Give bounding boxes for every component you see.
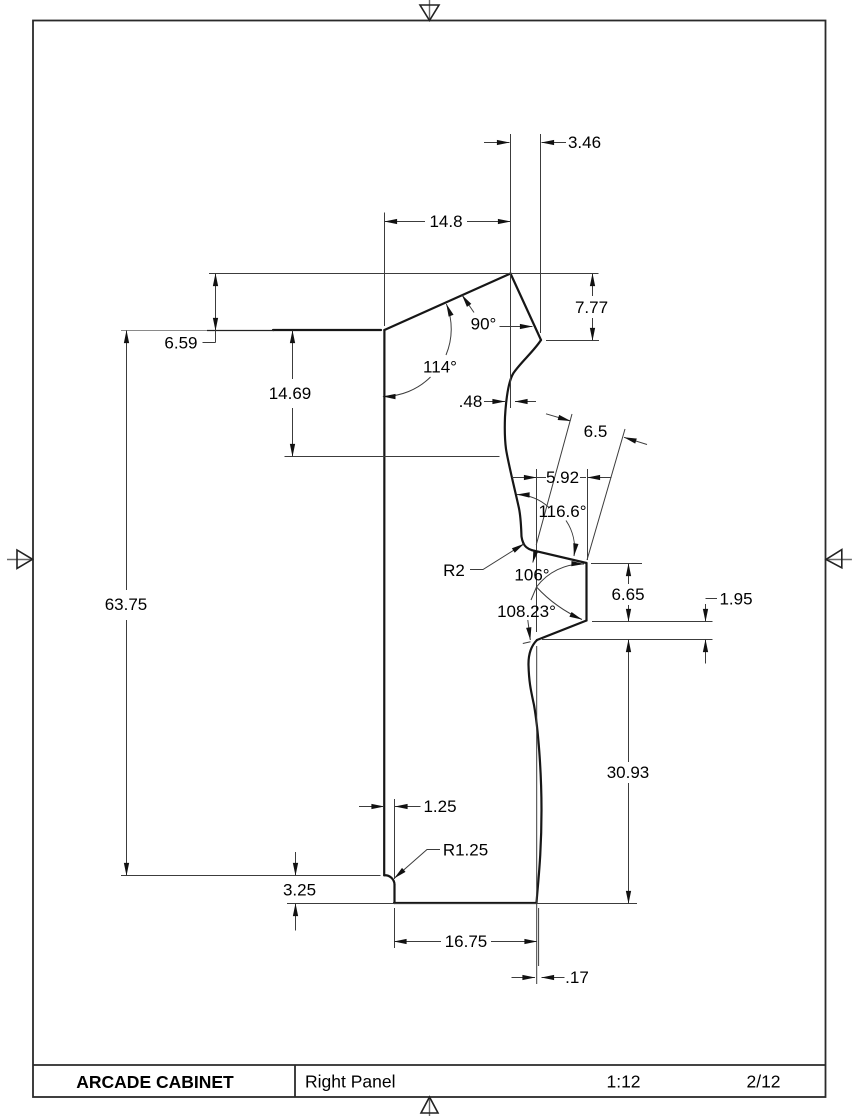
dim 16.75: [394, 932, 537, 951]
dim 90 deg leader: [462, 295, 533, 334]
ext x536.5 long vertical: [536, 469, 538, 632]
svg-text:5.92: 5.92: [546, 468, 579, 487]
underhang slanted edge: [537, 621, 587, 641]
ext x540.3 vertical: [540, 134, 542, 333]
ext y340 right: [546, 340, 599, 342]
svg-text:6.65: 6.65: [611, 585, 644, 604]
ext x394.7 for 1.25: [394, 799, 396, 879]
dim 3.25: [283, 852, 316, 931]
svg-text:2/12: 2/12: [746, 1072, 780, 1092]
front vertical face: [585, 563, 587, 621]
top center alignment mark: [420, 0, 439, 21]
svg-text:3.25: 3.25: [283, 881, 316, 900]
ext y456.5 glass top: [285, 456, 500, 458]
ext top-left y330 medium part: [207, 330, 274, 332]
svg-text:1.25: 1.25: [423, 797, 456, 816]
svg-text:14.8: 14.8: [429, 212, 462, 231]
svg-text:63.75: 63.75: [105, 595, 148, 614]
svg-text:114°: 114°: [423, 358, 457, 377]
dim 6.5: [546, 414, 647, 445]
svg-text:.48: .48: [459, 392, 483, 411]
svg-text:14.69: 14.69: [269, 384, 312, 403]
svg-text:108.23°: 108.23°: [497, 602, 556, 621]
title block: [33, 1065, 826, 1097]
lower front S-curve edge: [528, 640, 541, 903]
R1.25 leader: [394, 841, 488, 879]
dim 1.95: [706, 590, 753, 664]
ext top-left y330 light part: [121, 330, 207, 332]
ext x510.7 vertical from top: [510, 134, 512, 408]
slant ext line 2: [587, 429, 625, 560]
ext y640: [542, 639, 713, 641]
dim .17: [512, 968, 589, 987]
svg-text:ARCADE CABINET: ARCADE CABINET: [76, 1072, 234, 1092]
svg-text:106°: 106°: [514, 566, 549, 585]
dim 3.46: [484, 133, 601, 152]
ext y563: [591, 563, 642, 565]
svg-text:116.6°: 116.6°: [538, 502, 586, 521]
dim 5.92: [512, 468, 612, 487]
dim 116.6 deg arc: [517, 495, 587, 563]
dim 114 deg arc: [383, 304, 457, 397]
back vertical edge: [383, 330, 385, 875]
dark segment of top extension: [273, 329, 381, 331]
dim 14.69: [269, 331, 312, 457]
svg-text:30.93: 30.93: [607, 763, 650, 782]
svg-text:.17: .17: [565, 968, 589, 987]
ext x539.5 for .17: [538, 908, 540, 966]
control panel top edge: [532, 550, 587, 563]
dim 6.59: [164, 274, 215, 353]
ext y875: [121, 875, 381, 877]
svg-text:7.77: 7.77: [575, 298, 608, 317]
ext x587 vertical: [587, 469, 589, 560]
ext x384.4 for 14.8: [384, 213, 386, 327]
ext top horizontal y273.5: [209, 273, 599, 275]
svg-text:1.95: 1.95: [719, 590, 752, 609]
svg-text:6.5: 6.5: [584, 422, 608, 441]
dim 108.23 deg arc: [497, 587, 582, 644]
svg-text:R1.25: R1.25: [443, 841, 488, 860]
svg-text:16.75: 16.75: [445, 932, 488, 951]
ext y622: [592, 621, 713, 623]
dim .48: [459, 392, 536, 411]
rear bottom notch vertical: [393, 885, 395, 904]
R2 leader: [443, 544, 524, 580]
right center alignment mark: [826, 550, 852, 568]
svg-text:R2: R2: [443, 561, 465, 580]
svg-text:Right Panel: Right Panel: [305, 1072, 395, 1092]
monitor glass concave curve: [505, 340, 541, 543]
ext y903: [287, 903, 637, 905]
top slanted edge: [384, 274, 510, 331]
dim 63.75: [105, 331, 148, 876]
dim 1.25: [359, 797, 457, 816]
dim 7.77: [575, 274, 608, 341]
R1.25 fillet: [384, 875, 394, 884]
left center alignment mark: [7, 550, 33, 569]
R2 fillet at control panel: [523, 543, 532, 550]
svg-text:6.59: 6.59: [164, 334, 197, 353]
bottom center alignment mark: [421, 1097, 438, 1116]
marquee front slanted edge: [511, 274, 542, 341]
ext x394 for 16.75: [394, 908, 396, 948]
svg-text:90°: 90°: [471, 315, 497, 334]
svg-text:3.46: 3.46: [568, 133, 601, 152]
dim 14.8: [385, 212, 511, 231]
bottom edge: [394, 902, 537, 904]
slant ext line 1: [536, 414, 572, 545]
dim 6.65: [611, 564, 644, 622]
svg-text:1:12: 1:12: [606, 1072, 640, 1092]
dim 30.93: [607, 640, 650, 904]
dim 106 deg arc: [514, 564, 584, 587]
